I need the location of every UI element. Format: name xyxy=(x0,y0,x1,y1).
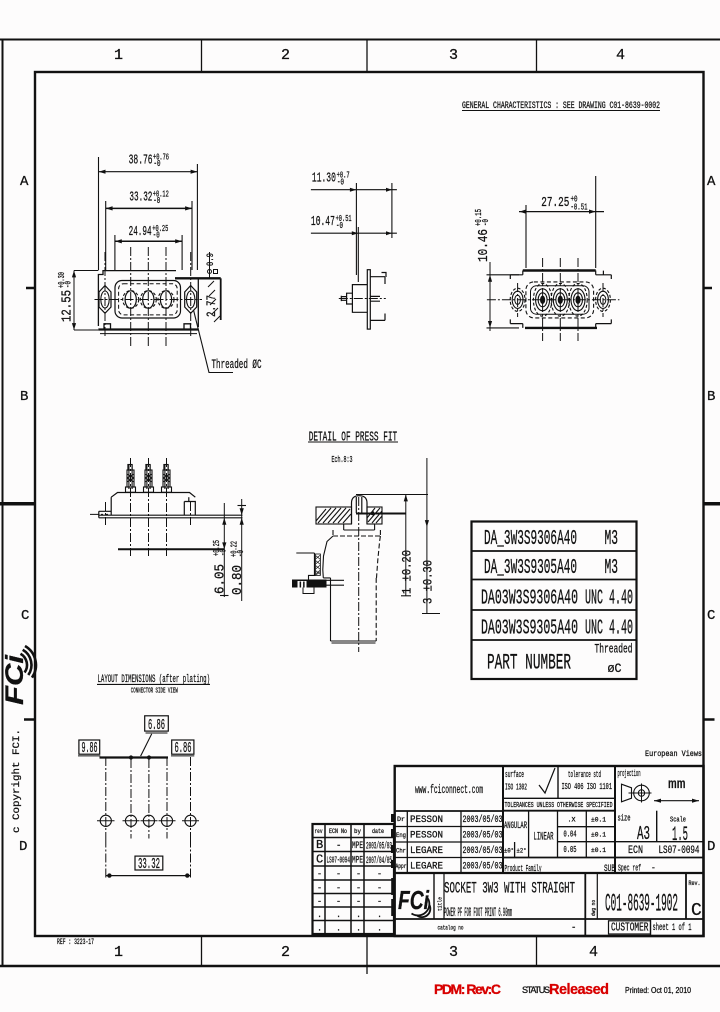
svg-text:.: . xyxy=(317,910,322,920)
bottom row catalog / customer / sheet xyxy=(438,921,692,935)
svg-text:Spec ref: Spec ref xyxy=(618,863,641,874)
contact body below board xyxy=(323,524,381,643)
rear D-shroud outline xyxy=(526,282,594,318)
projection cell xyxy=(618,769,700,803)
pin 1 xyxy=(126,465,136,493)
svg-text:STATUS: STATUS xyxy=(522,985,550,995)
svg-text:1 ±0.20: 1 ±0.20 xyxy=(399,550,414,594)
svg-text:MPE: MPE xyxy=(352,841,363,852)
pad centerlines xyxy=(106,757,191,879)
svg-text:-0: -0 xyxy=(153,196,160,206)
svg-text:TOLERANCES UNLESS OTHERWISE SP: TOLERANCES UNLESS OTHERWISE SPECIFIED xyxy=(505,802,613,810)
svg-text:2.77: 2.77 xyxy=(204,295,219,317)
datum line with arrow xyxy=(356,511,406,515)
D-shaped insert opening xyxy=(115,281,181,319)
front view body outline xyxy=(98,271,198,334)
svg-text:CONNECTOR SIDE VIEW: CONNECTOR SIDE VIEW xyxy=(131,688,178,696)
svg-text:tolerance std: tolerance std xyxy=(568,770,601,780)
zone number labels bottom xyxy=(114,944,598,961)
left edge tiny cell marks xyxy=(391,814,395,916)
FCI logo title block xyxy=(398,885,430,917)
svg-text:ISO 1302: ISO 1302 xyxy=(505,783,527,793)
svg-text:-0: -0 xyxy=(236,550,246,557)
svg-text:2: 2 xyxy=(281,944,290,961)
svg-text:33.32: 33.32 xyxy=(129,190,152,206)
dimension 33.32 +0.12/-0 xyxy=(106,190,192,271)
rear contact 2 xyxy=(551,258,569,341)
svg-text:size: size xyxy=(618,814,631,824)
section overlay with 2.77 dim xyxy=(175,278,221,322)
dimension 10.46 +0.15/-0 (vertical rotated) xyxy=(474,209,519,331)
revision row B xyxy=(316,838,392,853)
layout title xyxy=(97,674,210,696)
part number row 3 xyxy=(481,588,633,611)
dimension 10.47 +0.51/-0 xyxy=(311,214,397,235)
svg-text:10.46: 10.46 xyxy=(476,229,492,262)
svg-text:LINEAR: LINEAR xyxy=(534,832,554,844)
dimension 27.25 +0/-0.51 xyxy=(519,176,604,268)
svg-text:-: - xyxy=(336,883,341,893)
zone letter labels right margin xyxy=(707,174,716,855)
svg-text:-0: -0 xyxy=(336,221,343,231)
svg-text:sheet 1 of 1: sheet 1 of 1 xyxy=(653,922,692,934)
svg-text:6.86: 6.86 xyxy=(148,717,165,734)
svg-text:±0.1: ±0.1 xyxy=(591,832,606,839)
svg-text:-: - xyxy=(571,923,576,933)
svg-text:date: date xyxy=(372,828,384,835)
bottom margin zone dividers xyxy=(202,936,537,974)
revision cell xyxy=(689,880,703,921)
rear contact 3 xyxy=(569,258,587,341)
svg-text:Rev.: Rev. xyxy=(689,880,701,887)
pin 2 xyxy=(144,465,154,493)
part number row 2 xyxy=(484,557,618,580)
svg-text:2003/05/03: 2003/05/03 xyxy=(463,830,503,842)
svg-text:ISO 406 ISO 1101: ISO 406 ISO 1101 xyxy=(562,782,613,792)
revision row C xyxy=(316,853,392,868)
pin 3 xyxy=(162,465,172,493)
svg-text:C: C xyxy=(21,608,29,624)
svg-text:.: . xyxy=(377,910,382,920)
svg-text:-: - xyxy=(377,897,382,907)
svg-text:title: title xyxy=(437,897,444,911)
svg-text:-: - xyxy=(356,869,361,879)
svg-text:-: - xyxy=(356,883,361,893)
svg-text:REF : 3223-17: REF : 3223-17 xyxy=(57,938,94,947)
svg-text:ANGULAR: ANGULAR xyxy=(504,821,527,832)
svg-text:European Views: European Views xyxy=(645,750,702,759)
svg-text:FCi: FCi xyxy=(1,654,29,705)
pcb section hatched left xyxy=(316,507,352,524)
svg-text:Threaded ØC: Threaded ØC xyxy=(212,358,262,372)
svg-text:2003/05/03: 2003/05/03 xyxy=(463,861,503,873)
svg-text:by: by xyxy=(354,828,361,835)
svg-text:B: B xyxy=(316,838,323,852)
svg-text:9.86: 9.86 xyxy=(82,740,98,757)
pcb section hatched right xyxy=(367,507,382,524)
svg-text:.: . xyxy=(356,924,361,934)
svg-text:PESSON: PESSON xyxy=(410,814,443,826)
svg-text:catalog no: catalog no xyxy=(438,925,464,932)
svg-text:24.94: 24.94 xyxy=(129,224,152,240)
sheet inner frame xyxy=(35,72,704,936)
part number row 4 xyxy=(481,618,633,641)
dimension 3 +-0.30 xyxy=(420,458,440,614)
svg-text:2007/04/05: 2007/04/05 xyxy=(366,855,392,867)
svg-text:0.05: 0.05 xyxy=(564,845,577,855)
svg-text:Ech.8:3: Ech.8:3 xyxy=(332,454,353,465)
svg-text:33.32: 33.32 xyxy=(138,856,160,873)
svg-text:A: A xyxy=(20,174,29,190)
svg-text:-: - xyxy=(317,869,322,879)
svg-text:FCi: FCi xyxy=(398,885,430,915)
svg-text:surface: surface xyxy=(505,770,524,780)
svg-text:-0: -0 xyxy=(153,230,160,240)
top margin zone dividers xyxy=(202,39,537,72)
svg-text:SUB: SUB xyxy=(604,863,615,875)
svg-text:Appr: Appr xyxy=(396,863,407,870)
svg-text:±0.1: ±0.1 xyxy=(591,847,606,854)
dimension 1 +-0.20 xyxy=(399,495,414,597)
svg-text:3: 3 xyxy=(449,944,458,961)
svg-text:POWER PF FOR FOOT PRINT 6.90mm: POWER PF FOR FOOT PRINT 6.90mm xyxy=(444,906,512,920)
svg-text:-: - xyxy=(356,897,361,907)
svg-text:PDM: Rev:C: PDM: Rev:C xyxy=(434,981,501,997)
svg-text:1: 1 xyxy=(114,47,123,64)
approval rows xyxy=(396,814,503,873)
svg-text:2003/05/03: 2003/05/03 xyxy=(463,814,503,826)
svg-text:2003/05/03: 2003/05/03 xyxy=(366,841,392,853)
svg-text:ECN No: ECN No xyxy=(329,828,347,835)
right hex jack screw xyxy=(185,252,197,338)
footer status strip xyxy=(434,981,691,998)
svg-text:-0: -0 xyxy=(481,219,491,226)
svg-text:D: D xyxy=(707,839,715,855)
svg-text:4: 4 xyxy=(616,47,625,64)
pads (holes) xyxy=(100,815,196,826)
svg-text:DETAIL OF PRESS FIT: DETAIL OF PRESS FIT xyxy=(309,430,398,446)
svg-text:11.30: 11.30 xyxy=(312,171,336,187)
svg-text:2003/05/03: 2003/05/03 xyxy=(463,845,503,857)
svg-text:±0.1: ±0.1 xyxy=(591,817,606,824)
svg-text:.X: .X xyxy=(568,817,576,824)
front view horizontal centerline xyxy=(95,299,203,301)
svg-text:2: 2 xyxy=(281,47,290,64)
svg-text:27.25: 27.25 xyxy=(541,195,569,211)
svg-text:-0: -0 xyxy=(154,159,161,169)
contact centerline xyxy=(358,497,360,652)
svg-text:C: C xyxy=(707,608,715,624)
svg-text:Released: Released xyxy=(549,982,609,998)
revision table header xyxy=(315,828,385,835)
svg-text:Eng: Eng xyxy=(396,832,406,839)
svg-text:Printed: Oct 01, 2010: Printed: Oct 01, 2010 xyxy=(625,986,691,995)
part number header row xyxy=(487,643,633,677)
tolerance std cell xyxy=(562,770,613,792)
svg-text:MPE: MPE xyxy=(352,856,363,867)
svg-text:3 ±0.30: 3 ±0.30 xyxy=(420,560,435,604)
dimension 11.30 +0.7/-0 xyxy=(311,171,397,192)
contact 1 xyxy=(123,247,139,348)
svg-text:ECN: ECN xyxy=(628,845,643,857)
svg-text:øC: øC xyxy=(608,662,622,676)
right margin zone ticks xyxy=(704,288,720,720)
svg-text:M3: M3 xyxy=(605,528,619,551)
svg-text:Product Family: Product Family xyxy=(505,863,542,874)
svg-text:C: C xyxy=(691,901,702,921)
side view profile xyxy=(341,270,386,329)
svg-text:DA03W3S9306A40: DA03W3S9306A40 xyxy=(481,588,578,611)
svg-text:PART NUMBER: PART NUMBER xyxy=(487,651,571,676)
rear mount hole left xyxy=(510,283,525,317)
pcb edge bracket left xyxy=(292,553,344,594)
dimension 24.94 +0.25/-0 xyxy=(115,224,182,270)
detail title xyxy=(308,430,398,466)
surface cell xyxy=(505,768,555,793)
svg-text:UNC 4.40: UNC 4.40 xyxy=(585,618,633,641)
svg-text:rev: rev xyxy=(315,828,323,835)
rear view body xyxy=(510,271,611,328)
svg-text:4: 4 xyxy=(589,944,598,961)
svg-text:UNC 4.40: UNC 4.40 xyxy=(585,588,633,611)
boxed dim 33.32 bottom xyxy=(106,856,191,878)
ECN row xyxy=(628,845,700,857)
press-fit pin xyxy=(352,496,368,524)
svg-text:-: - xyxy=(317,883,322,893)
svg-text:1: 1 xyxy=(114,944,123,961)
svg-text:-0: -0 xyxy=(219,549,229,556)
svg-text:0.9: 0.9 xyxy=(206,253,217,266)
body of connector (pins up) xyxy=(99,493,243,518)
side view centerline xyxy=(339,298,386,300)
svg-text:Dr: Dr xyxy=(397,816,405,823)
small 0.9 reference mark xyxy=(206,252,218,278)
size / scale cells xyxy=(618,814,689,848)
rear mount hole right xyxy=(596,283,611,317)
left hex jack screw xyxy=(99,252,111,338)
svg-text:0.04: 0.04 xyxy=(564,830,577,840)
boxed dim 6.86 right xyxy=(171,740,194,757)
svg-text:10.47: 10.47 xyxy=(311,214,335,230)
svg-text:C01-8639-1902: C01-8639-1902 xyxy=(605,890,678,919)
svg-text:-: - xyxy=(336,869,341,879)
revision empty rows xyxy=(317,869,382,934)
svg-text:±0°: ±0° xyxy=(504,847,514,855)
dimension 12.55 +0.30/-0 (vertical, left) xyxy=(57,271,98,331)
product family / spec ref row xyxy=(505,863,656,876)
detail top extension line xyxy=(356,494,428,496)
svg-text:M3: M3 xyxy=(605,557,619,580)
svg-text:dwg no: dwg no xyxy=(590,900,597,916)
svg-text:c Copyright FCI.: c Copyright FCI. xyxy=(11,729,23,833)
svg-text:projection: projection xyxy=(618,769,641,779)
zone letter labels left margin xyxy=(19,174,29,855)
svg-text:.: . xyxy=(356,910,361,920)
svg-text:.: . xyxy=(377,924,382,934)
svg-text:mm: mm xyxy=(668,778,686,793)
svg-text:A: A xyxy=(707,174,716,190)
zone number labels top xyxy=(114,47,625,64)
svg-text:LS07-0094: LS07-0094 xyxy=(659,845,700,857)
svg-text:6.05: 6.05 xyxy=(213,564,229,594)
general note text xyxy=(462,101,660,112)
svg-text:PESSON: PESSON xyxy=(410,830,443,842)
boxed dim 6.86 top xyxy=(141,716,169,756)
rear horizontal centerline xyxy=(487,299,620,301)
svg-text:-: - xyxy=(651,864,656,873)
svg-text:-: - xyxy=(317,897,322,907)
dimension 38.76 +0.76/-0 xyxy=(99,153,198,271)
part number row 1 xyxy=(484,528,618,551)
svg-text:1.5: 1.5 xyxy=(672,824,688,847)
title block frame xyxy=(395,766,704,936)
svg-text:DA_3W3S9306A40: DA_3W3S9306A40 xyxy=(484,528,577,551)
svg-text:Threaded: Threaded xyxy=(595,643,633,657)
dimension 6.05 +0.25/-0 (vertical) xyxy=(212,503,229,597)
svg-text:-: - xyxy=(377,869,382,879)
dimension 0.80 +0.22/-0 (vertical) xyxy=(230,499,247,601)
svg-text:12.55: 12.55 xyxy=(60,290,76,322)
svg-text:A3: A3 xyxy=(637,823,650,845)
svg-text:.: . xyxy=(336,910,341,920)
svg-text:LEGARE: LEGARE xyxy=(410,861,443,873)
svg-text:-: - xyxy=(336,897,341,907)
pin centerlines xyxy=(90,458,191,556)
svg-text:SOCKET 3W3 WITH STRAIGHT: SOCKET 3W3 WITH STRAIGHT xyxy=(444,880,575,898)
svg-text:3: 3 xyxy=(449,47,458,64)
svg-text:.: . xyxy=(317,924,322,934)
svg-text:-0: -0 xyxy=(64,281,74,288)
svg-text:LS07-0094: LS07-0094 xyxy=(327,855,351,866)
svg-text:6.86: 6.86 xyxy=(175,740,192,757)
svg-text:Chr: Chr xyxy=(396,848,406,855)
rear contact 1 xyxy=(533,258,551,341)
svg-text:CUSTOMER: CUSTOMER xyxy=(611,922,649,935)
boxed dim 9.86 left xyxy=(78,740,100,757)
svg-text:±2°: ±2° xyxy=(517,847,527,855)
lead tip line xyxy=(118,548,224,550)
svg-text:0.80: 0.80 xyxy=(230,565,246,595)
contact 3 xyxy=(158,247,174,348)
svg-text:www.fciconnect.com: www.fciconnect.com xyxy=(415,783,483,797)
angular / linear tolerance cells xyxy=(504,817,606,856)
svg-text:LEGARE: LEGARE xyxy=(410,845,443,857)
svg-text:-: - xyxy=(336,841,341,851)
left margin zone ticks xyxy=(0,288,35,720)
side view extension lines xyxy=(356,183,392,282)
svg-text:C: C xyxy=(316,853,323,867)
svg-text:B: B xyxy=(707,389,715,405)
svg-text:B: B xyxy=(20,389,28,405)
svg-text:DA03W3S9305A40: DA03W3S9305A40 xyxy=(481,618,578,641)
leader Threaded C xyxy=(194,310,262,373)
pcb edge line with pins xyxy=(100,755,169,759)
contact 2 xyxy=(140,247,156,348)
svg-text:-: - xyxy=(377,883,382,893)
svg-text:38.76: 38.76 xyxy=(129,153,153,169)
svg-text:-0: -0 xyxy=(337,178,344,188)
svg-text:.: . xyxy=(336,924,341,934)
FCI logo left margin (rotated) xyxy=(1,646,36,705)
svg-text:DA_3W3S9305A40: DA_3W3S9305A40 xyxy=(484,557,577,580)
svg-text:D: D xyxy=(19,839,27,855)
